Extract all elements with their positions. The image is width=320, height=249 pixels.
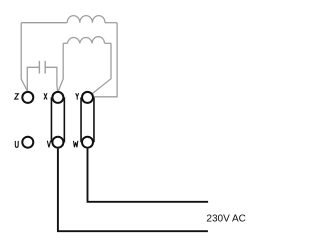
label Y (76, 93, 79, 99)
main winding (run winding) coil (67, 16, 105, 23)
wire: inner loop baseline right stub (105, 42, 112, 44)
wire: supply line from terminal W (upper) (88, 149, 209, 202)
wire: outer loop right vertical down to terminal Y (94, 23, 117, 97)
svg-text:230V AC: 230V AC (206, 213, 245, 224)
wire: outer loop left vertical from main winding down to terminal Z (21, 23, 27, 92)
wire: inner loop right vertical down to terminal Y (93, 43, 111, 93)
wire: inner loop left vertical from aux winding down to terminal X (58, 43, 63, 91)
terminal X (52, 92, 63, 103)
label Z (15, 94, 19, 99)
label X (44, 93, 47, 99)
label W (74, 141, 78, 148)
label V (47, 141, 50, 148)
auxiliary (start) winding coil (68, 37, 105, 44)
wire: outer loop top horizontal (left segment) (21, 22, 67, 24)
wire: supply line from terminal V (lower) (58, 149, 208, 232)
terminal Y (82, 92, 93, 103)
capacitor C plates (39, 61, 45, 74)
label U (15, 141, 18, 147)
capacitor C right lead to terminal X (45, 67, 57, 91)
capacitor C left lead to terminal Z (27, 67, 39, 91)
terminal Z (22, 92, 33, 103)
terminal U (22, 137, 33, 148)
link Y-W (terminal bridge) (81, 97, 94, 142)
wire: inner loop baseline left stub (63, 42, 67, 44)
terminal V (52, 137, 63, 148)
terminal W (82, 137, 93, 148)
link X-V (terminal bridge) (51, 97, 64, 142)
wire: outer loop top horizontal (right segment) (105, 22, 117, 24)
